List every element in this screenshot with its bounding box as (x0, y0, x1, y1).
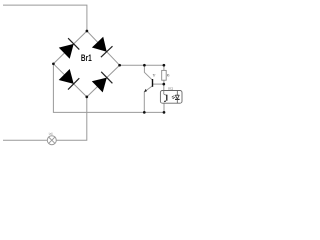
svg-text:Rb: Rb (167, 73, 170, 77)
wire collector drop (144, 65, 152, 80)
wire DC plus rail from right node (120, 64, 164, 66)
svg-text:La1: La1 (49, 132, 53, 136)
node resistor top junction (163, 64, 166, 67)
wire optocoupler emitter pin to rail (163, 102, 165, 112)
wire bridge edge top-right (87, 31, 120, 65)
node collector junction (143, 64, 146, 67)
svg-text:OC1: OC1 (168, 86, 173, 90)
optocoupler OC1 led (172, 91, 180, 104)
node top of bridge (86, 30, 89, 33)
wire bottom node down to lamp rail (56, 97, 87, 140)
node bottom of bridge (85, 96, 88, 99)
diode D4 bottom-right of bridge Br1 (92, 72, 113, 93)
wire DC minus rail from left node down and right (53, 64, 164, 113)
wire resistor bottom lead to base node (163, 80, 165, 84)
wire bridge edge bottom-left (53, 64, 86, 97)
diode D3 bottom-left of bridge Br1 (59, 69, 80, 90)
node optocoupler rail junction (163, 111, 166, 114)
wire resistor top lead (163, 65, 165, 70)
wire emitter to rail (144, 86, 152, 113)
node base junction (162, 83, 165, 86)
wire base lead (153, 83, 164, 85)
wire base node to optocoupler collector pin (163, 84, 165, 94)
optocoupler OC1 box (160, 91, 182, 104)
node emitter rail junction (143, 111, 146, 114)
diode D1 top-left of bridge Br1 (59, 38, 80, 59)
transistor Tr (144, 79, 152, 92)
optocoupler OC1 phototransistor (164, 91, 167, 103)
svg-text:Br1: Br1 (81, 53, 92, 63)
wire lamp rail left segment (4, 139, 48, 141)
lamp La1 (47, 136, 56, 145)
wire AC feed top-left (4, 5, 87, 31)
node right of bridge (118, 64, 121, 67)
wire bridge edge bottom-right (87, 65, 120, 97)
node left of bridge (52, 62, 55, 65)
resistor Rb (162, 70, 167, 80)
diode D2 top-right of bridge Br1 (92, 37, 113, 58)
wire bridge edge top-left (53, 31, 87, 64)
